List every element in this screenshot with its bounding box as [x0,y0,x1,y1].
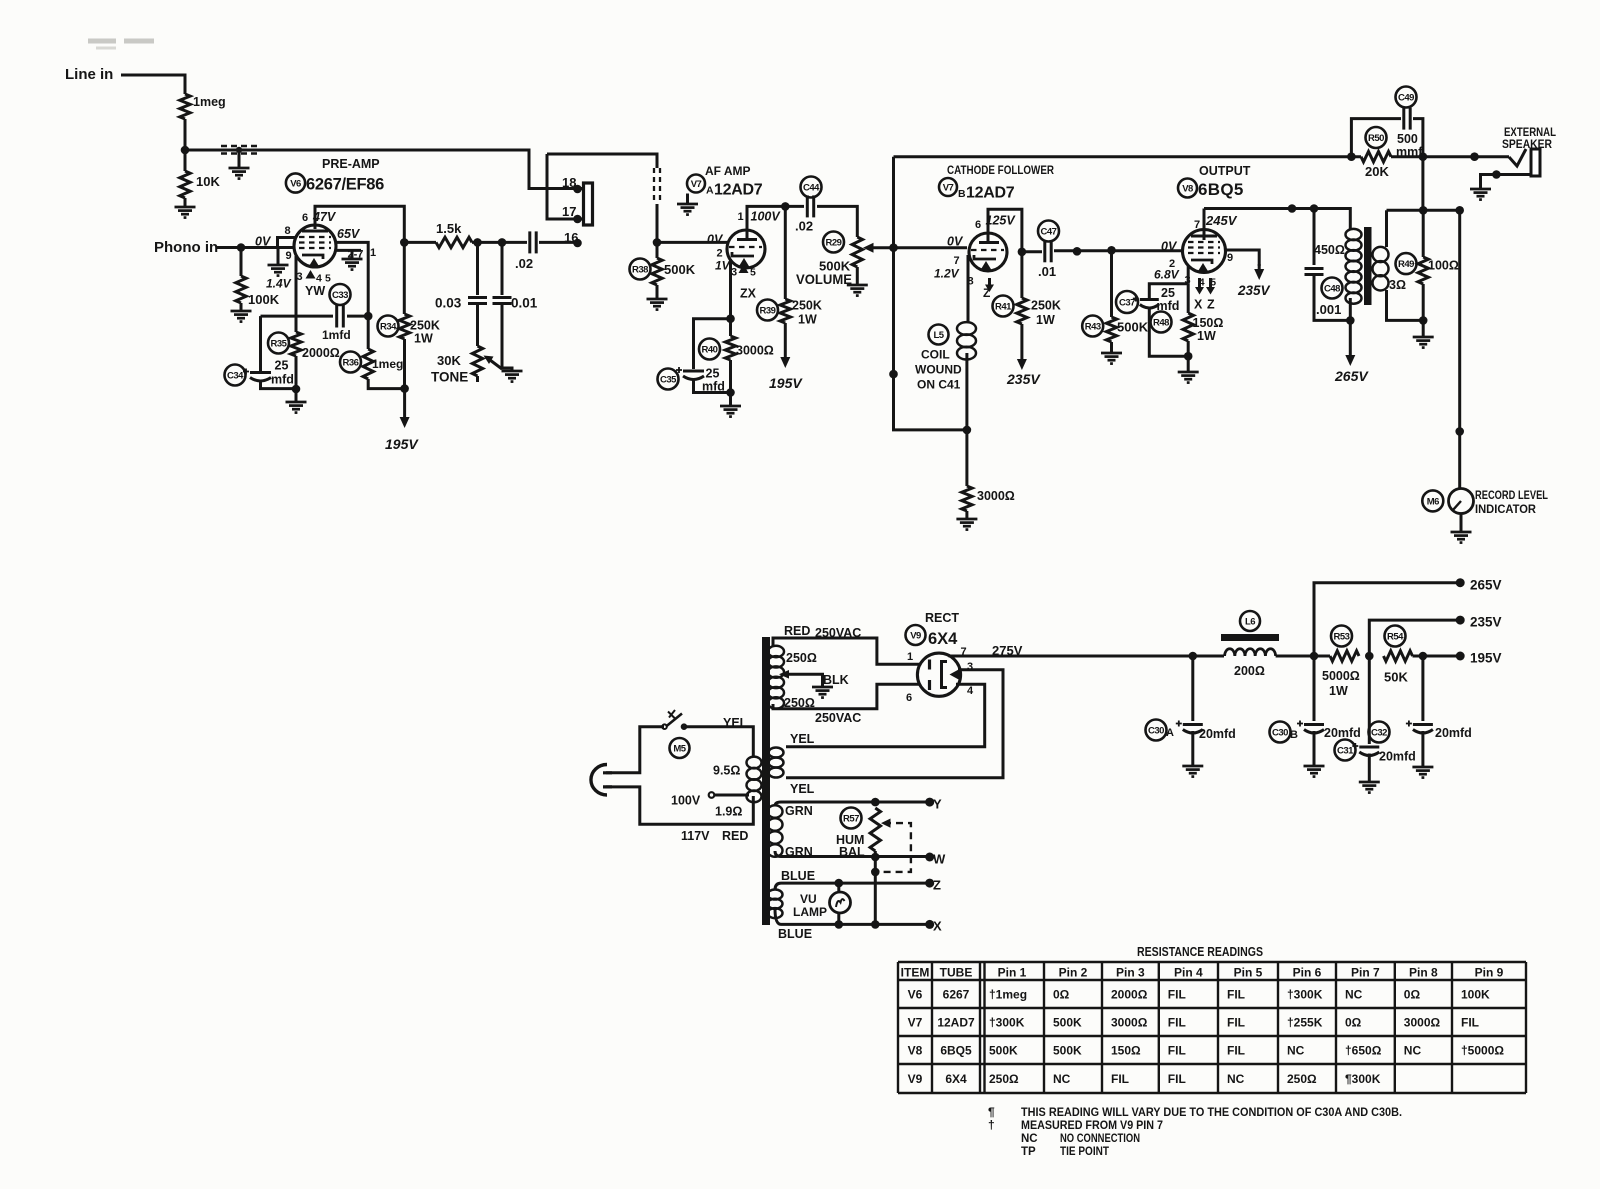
svg-text:235V: 235V [1006,371,1041,387]
svg-text:500K: 500K [989,1044,1018,1058]
svg-text:16: 16 [564,230,578,245]
svg-text:195V: 195V [1470,651,1502,666]
svg-text:3: 3 [1185,275,1191,287]
svg-text:100K: 100K [248,292,280,307]
svg-text:500K: 500K [1053,1044,1082,1058]
svg-text:Pin 6: Pin 6 [1293,966,1322,980]
svg-text:†300K: †300K [989,1016,1025,1030]
svg-text:275V: 275V [992,643,1023,658]
svg-text:V7: V7 [908,1016,923,1030]
svg-text:B: B [958,188,966,200]
svg-text:NC: NC [1345,988,1363,1002]
svg-text:V8: V8 [908,1044,923,1058]
svg-text:R40: R40 [702,344,718,355]
svg-text:R50: R50 [1368,133,1384,144]
svg-text:0Ω: 0Ω [1053,988,1070,1002]
svg-text:YEL: YEL [723,716,748,730]
svg-text:R39: R39 [760,305,776,316]
svg-text:30K: 30K [437,353,461,368]
svg-text:C32: C32 [1371,727,1387,738]
svg-text:C47: C47 [1041,226,1057,237]
svg-text:Z: Z [1207,298,1215,312]
svg-text:Z: Z [933,878,941,893]
svg-text:7: 7 [954,255,960,267]
svg-text:M6: M6 [1427,496,1439,507]
svg-text:6267/EF86: 6267/EF86 [306,176,384,194]
svg-text:235V: 235V [1237,283,1271,298]
svg-text:1W: 1W [1329,684,1348,698]
svg-text:235V: 235V [1470,615,1502,630]
svg-text:9: 9 [286,250,292,262]
svg-text:1: 1 [738,211,744,223]
svg-text:1.2V: 1.2V [934,267,960,281]
svg-text:GRN: GRN [785,804,813,818]
svg-text:1W: 1W [1197,329,1216,343]
svg-text:ZX: ZX [740,287,757,301]
svg-text:FIL: FIL [1461,1016,1479,1030]
svg-text:V8: V8 [1182,183,1193,194]
svg-text:RECORD LEVEL: RECORD LEVEL [1475,490,1548,502]
svg-text:RESISTANCE READINGS: RESISTANCE READINGS [1137,945,1263,959]
svg-text:250VAC: 250VAC [815,711,861,725]
svg-text:Pin 7: Pin 7 [1351,966,1380,980]
svg-text:L6: L6 [1245,616,1255,627]
svg-text:12AD7: 12AD7 [937,1016,975,1030]
svg-text:LAMP: LAMP [793,905,827,919]
svg-text:MEASURED FROM V9 PIN 7: MEASURED FROM V9 PIN 7 [1021,1120,1163,1132]
svg-text:100K: 100K [1461,988,1490,1002]
svg-text:1V: 1V [715,259,731,273]
svg-text:195V: 195V [769,375,803,391]
svg-text:Pin 8: Pin 8 [1409,966,1438,980]
svg-text:NC: NC [1227,1072,1245,1086]
svg-text:100Ω: 100Ω [1428,259,1459,273]
svg-text:C48: C48 [1324,283,1340,294]
svg-text:†650Ω: †650Ω [1345,1044,1382,1058]
svg-text:2000Ω: 2000Ω [302,346,340,360]
svg-text:3000Ω: 3000Ω [1111,1016,1148,1030]
svg-text:4: 4 [967,685,974,697]
svg-text:250VAC: 250VAC [815,626,861,640]
svg-text:TP: TP [1021,1146,1036,1158]
svg-text:BLK: BLK [823,673,849,687]
svg-text:3000Ω: 3000Ω [736,344,774,358]
svg-text:C30: C30 [1272,727,1288,738]
svg-text:1.4V: 1.4V [266,277,292,291]
svg-text:R43: R43 [1085,321,1101,332]
svg-text:R54: R54 [1387,631,1404,642]
svg-text:V9: V9 [908,1072,923,1086]
svg-text:FIL: FIL [1227,1044,1245,1058]
svg-text:V7: V7 [943,182,954,193]
svg-text:0V: 0V [1161,240,1178,254]
svg-text:3000Ω: 3000Ω [977,489,1015,503]
svg-text:BLUE: BLUE [781,869,815,883]
svg-text:EXTERNAL: EXTERNAL [1504,127,1556,139]
svg-text:VU: VU [800,892,817,906]
svg-text:150Ω: 150Ω [1193,316,1224,330]
svg-text:3000Ω: 3000Ω [1404,1016,1441,1030]
svg-text:12AD7: 12AD7 [966,185,1015,202]
svg-text:47V: 47V [312,210,337,224]
svg-text:0Ω: 0Ω [1345,1016,1362,1030]
svg-text:¶300K: ¶300K [1345,1072,1381,1086]
svg-text:TUBE: TUBE [940,966,973,980]
svg-text:0V: 0V [707,233,724,247]
svg-text:mfd: mfd [271,373,294,387]
svg-text:5000Ω: 5000Ω [1322,669,1360,683]
svg-text:7: 7 [1194,219,1200,231]
svg-text:265V: 265V [1470,578,1502,593]
svg-text:C31: C31 [1337,745,1354,756]
svg-text:FIL: FIL [1111,1072,1129,1086]
svg-text:1W: 1W [414,332,433,346]
svg-text:†255K: †255K [1287,1016,1323,1030]
svg-text:NC: NC [1287,1044,1305,1058]
svg-text:mmf: mmf [1396,145,1423,159]
svg-text:50K: 50K [1384,670,1408,685]
svg-text:NO CONNECTION: NO CONNECTION [1060,1133,1140,1145]
svg-text:NC: NC [1404,1044,1422,1058]
svg-text:†5000Ω: †5000Ω [1461,1044,1504,1058]
svg-text:65V: 65V [337,227,361,241]
svg-text:†300K: †300K [1287,988,1323,1002]
svg-text:¶: ¶ [988,1105,995,1119]
svg-text:R36: R36 [343,357,359,368]
svg-text:2000Ω: 2000Ω [1111,988,1148,1002]
svg-text:6: 6 [975,219,981,231]
svg-text:X: X [933,919,942,934]
svg-text:C30: C30 [1148,725,1164,736]
svg-text:C44: C44 [803,182,820,193]
svg-text:25: 25 [275,359,289,373]
svg-text:B: B [1290,729,1298,741]
svg-text:6BQ5: 6BQ5 [1198,180,1244,199]
svg-text:6: 6 [302,212,308,224]
svg-text:C34: C34 [227,370,244,381]
svg-text:RED: RED [784,624,810,638]
svg-text:1: 1 [370,247,376,259]
svg-text:1.9Ω: 1.9Ω [715,805,742,819]
svg-text:FIL: FIL [1227,1016,1245,1030]
svg-text:150Ω: 150Ω [1111,1044,1141,1058]
svg-text:20mfd: 20mfd [1435,726,1472,740]
svg-text:C35: C35 [660,374,677,385]
svg-text:6267: 6267 [943,988,970,1002]
svg-text:.001: .001 [1316,302,1341,317]
svg-text:Pin 3: Pin 3 [1116,966,1145,980]
svg-text:V9: V9 [910,630,921,641]
svg-text:0.01: 0.01 [511,296,538,311]
svg-text:200Ω: 200Ω [1234,664,1265,678]
svg-text:YW: YW [305,284,325,298]
svg-text:1meg: 1meg [372,357,403,371]
svg-text:0V: 0V [255,235,272,249]
svg-text:117V: 117V [681,829,710,843]
svg-text:500K: 500K [1053,1016,1082,1030]
svg-text:L5: L5 [933,330,944,341]
svg-text:1W: 1W [1036,313,1055,327]
svg-text:BLUE: BLUE [778,927,812,941]
svg-text:6: 6 [906,692,912,704]
svg-text:FIL: FIL [1168,988,1186,1002]
svg-text:SPEAKER: SPEAKER [1502,139,1553,151]
svg-text:RED: RED [722,829,748,843]
svg-text:Line in: Line in [65,66,113,83]
svg-text:1W: 1W [798,313,817,327]
svg-text:R38: R38 [632,264,648,275]
svg-text:RECT: RECT [925,611,959,625]
svg-text:CATHODE FOLLOWER: CATHODE FOLLOWER [947,163,1054,177]
svg-text:ITEM: ITEM [901,966,930,980]
svg-text:265V: 265V [1334,368,1369,384]
svg-text:X: X [1194,298,1203,312]
svg-text:18: 18 [562,175,576,190]
svg-text:5: 5 [750,267,756,279]
svg-text:Pin 9: Pin 9 [1475,966,1504,980]
svg-text:1mfd: 1mfd [322,328,351,342]
svg-text:125V: 125V [986,214,1017,228]
svg-text:V7: V7 [691,179,702,190]
svg-text:R35: R35 [271,338,288,349]
svg-text:C37: C37 [1119,297,1135,308]
svg-text:250K: 250K [1031,299,1061,313]
svg-text:R53: R53 [1334,631,1350,642]
svg-text:250K: 250K [792,299,822,313]
svg-text:FIL: FIL [1227,988,1245,1002]
svg-text:R48: R48 [1153,317,1169,328]
svg-text:W: W [933,852,946,867]
svg-text:100V: 100V [751,210,782,224]
svg-text:7: 7 [961,646,967,658]
svg-text:R29: R29 [826,237,842,248]
svg-text:500K: 500K [1117,320,1149,335]
svg-text:.01: .01 [1038,264,1056,279]
svg-text:FIL: FIL [1168,1072,1186,1086]
svg-text:WOUND: WOUND [915,363,962,377]
svg-text:8: 8 [285,225,291,237]
svg-text:YEL: YEL [790,782,815,796]
svg-text:mfd: mfd [1157,299,1180,313]
svg-text:5: 5 [325,273,331,285]
svg-text:TIE POINT: TIE POINT [1060,1146,1109,1158]
svg-text:FIL: FIL [1168,1044,1186,1058]
svg-text:PRE-AMP: PRE-AMP [322,157,380,171]
svg-text:YEL: YEL [790,732,815,746]
svg-text:GRN: GRN [785,845,813,859]
svg-text:20K: 20K [1365,164,1389,179]
svg-text:THIS READING WILL VARY DUE TO: THIS READING WILL VARY DUE TO THE CONDIT… [1021,1107,1402,1119]
svg-text:Pin 2: Pin 2 [1059,966,1088,980]
svg-text:20mfd: 20mfd [1379,750,1416,764]
svg-text:500: 500 [1397,132,1418,146]
svg-text:.02: .02 [795,219,813,234]
svg-text:0.03: 0.03 [435,296,462,311]
svg-text:12AD7: 12AD7 [714,182,763,199]
svg-text:250Ω: 250Ω [1287,1072,1317,1086]
svg-text:VOLUME: VOLUME [796,272,852,287]
svg-text:R49: R49 [1398,259,1414,270]
svg-text:M5: M5 [673,743,686,754]
svg-text:9: 9 [1227,252,1233,264]
svg-text:V6: V6 [908,988,923,1002]
svg-text:mfd: mfd [702,380,725,394]
svg-text:25: 25 [1161,286,1175,300]
svg-text:1.5k: 1.5k [436,221,462,236]
svg-text:A: A [706,185,714,197]
svg-text:9.5Ω: 9.5Ω [713,764,740,778]
svg-text:OUTPUT: OUTPUT [1199,164,1251,178]
svg-text:250K: 250K [410,319,440,333]
svg-text:TONE: TONE [431,370,468,385]
svg-text:6X4: 6X4 [945,1072,967,1086]
svg-text:245V: 245V [1205,213,1238,228]
svg-text:†: † [988,1118,995,1132]
svg-text:6BQ5: 6BQ5 [940,1044,972,1058]
svg-text:COIL: COIL [921,348,950,362]
svg-text:6X4: 6X4 [928,630,958,648]
svg-text:3Ω: 3Ω [1389,278,1406,292]
svg-text:4: 4 [316,273,322,285]
svg-text:R34: R34 [380,321,397,332]
svg-text:Pin 4: Pin 4 [1174,966,1203,980]
svg-text:NC: NC [1021,1133,1038,1145]
svg-text:C33: C33 [332,290,348,301]
svg-text:195V: 195V [385,436,419,452]
svg-text:A: A [1166,727,1174,739]
svg-text:FIL: FIL [1168,1016,1186,1030]
svg-text:.02: .02 [515,256,533,271]
svg-text:AF AMP: AF AMP [705,164,751,178]
svg-text:Phono in: Phono in [154,239,218,256]
svg-text:1: 1 [907,651,913,663]
svg-text:ON C41: ON C41 [917,378,961,392]
svg-text:100V: 100V [671,794,701,808]
svg-text:10K: 10K [196,174,220,189]
svg-text:0V: 0V [947,235,964,249]
svg-text:1meg: 1meg [193,95,226,109]
svg-text:250Ω: 250Ω [786,651,817,665]
svg-text:25: 25 [706,367,720,381]
svg-text:R41: R41 [995,301,1012,312]
svg-text:INDICATOR: INDICATOR [1475,504,1537,516]
svg-text:Pin 1: Pin 1 [998,966,1027,980]
svg-text:20mfd: 20mfd [1199,727,1236,741]
svg-text:V6: V6 [290,178,301,189]
svg-text:6.8V: 6.8V [1154,268,1180,282]
svg-text:20mfd: 20mfd [1324,726,1361,740]
svg-text:†1meg: †1meg [989,988,1027,1002]
svg-text:450Ω: 450Ω [1314,243,1345,257]
svg-text:Y: Y [933,797,942,812]
svg-text:0Ω: 0Ω [1404,988,1421,1002]
svg-text:250Ω: 250Ω [989,1072,1019,1086]
svg-text:500K: 500K [664,262,696,277]
svg-text:Pin 5: Pin 5 [1234,966,1263,980]
svg-text:NC: NC [1053,1072,1071,1086]
svg-text:R57: R57 [843,813,859,824]
svg-text:C49: C49 [1398,92,1414,103]
